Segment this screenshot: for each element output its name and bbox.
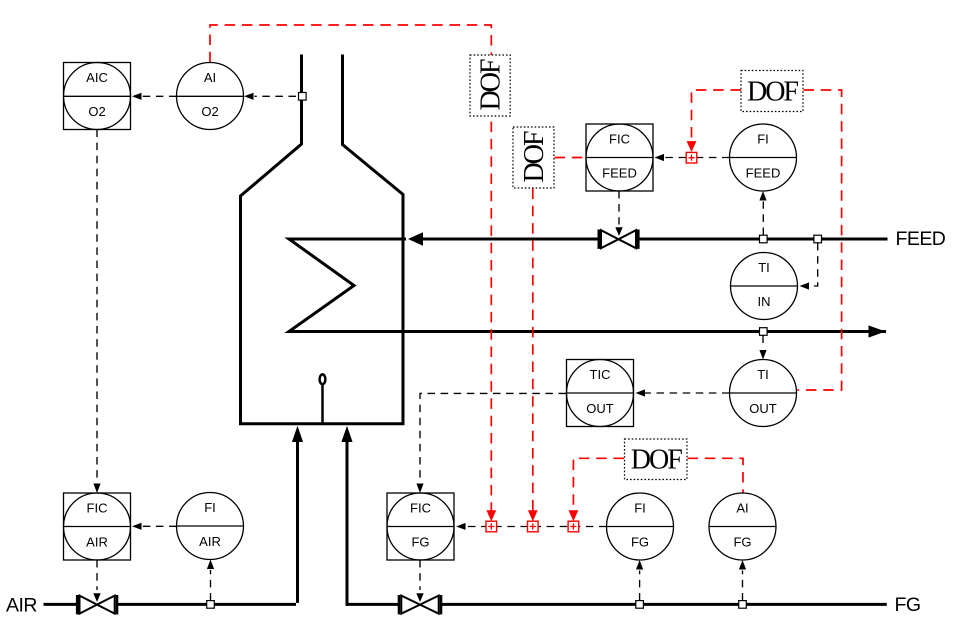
junction node on chimney [299,93,307,101]
svg-text:AI: AI [736,500,748,515]
instrument FIC-AIR [64,493,131,560]
svg-text:OUT: OUT [749,401,777,416]
svg-text:FG: FG [631,535,649,550]
instrument FIC-FG [387,493,454,560]
AIR process line [44,603,297,606]
instrument AI-O2 [177,63,244,130]
svg-text:AI: AI [204,70,216,85]
instrument TI-IN [731,253,798,320]
furnace F1 left wall and chimney left [241,55,302,424]
junction node on outlet line [760,328,768,336]
junction node on FG line 2 [739,601,747,609]
red DOF wire from DOF2 box to plus junction P2 [532,189,534,511]
signal wire FG junction up to FI-FG [639,571,641,601]
AIR riser arrow into furnace [292,426,303,442]
svg-text:FEED: FEED [746,166,781,181]
heating coil (FEED pass) [289,239,886,332]
signal wire FG junction2 up to AI-FG [742,571,744,601]
signal wire chimney junction to AI-O2 [255,95,297,97]
signal wire FIC-AIR to AIR valve [96,560,98,590]
svg-text:DOF: DOF [631,445,682,476]
svg-text:FG: FG [895,594,921,616]
red DOF wire from DOF2 box to FIC-FEED [555,157,586,159]
svg-text:FIC: FIC [410,500,431,515]
svg-text:AIR: AIR [199,534,221,549]
svg-text:DOF: DOF [519,131,550,182]
svg-text:FIC: FIC [609,131,630,146]
signal wire AIR junction up to FI-AIR [210,570,212,601]
red DOF wire from DOF4 box to AI-FG [688,458,744,493]
svg-text:O2: O2 [201,104,218,119]
svg-text:DOF: DOF [747,76,798,107]
signal wire AI-O2 to AIC-O2 [141,95,176,97]
signal wire FI-AIR to FIC-AIR [141,525,177,527]
svg-text:FEED: FEED [896,228,946,250]
instrument AI-FG [709,493,776,560]
red DOF wire from DOF3 box to plus junction P4 [692,90,742,141]
furnace F1 right wall and chimney right [343,55,404,424]
valve V2 AIR [77,595,117,614]
furnace F1 bottom wall [239,422,405,425]
FEED arrow into furnace [408,232,423,245]
svg-text:O2: O2 [88,104,105,119]
signal wire FEED junction2 down to TI-IN [809,243,818,286]
svg-text:AIR: AIR [86,535,108,550]
signal wire outlet junction down to TI-OUT [762,336,764,349]
instrument AIC-O2 [64,63,131,130]
DOF box 4 [625,439,688,480]
svg-text:TI: TI [758,260,770,275]
outlet arrow [869,325,886,337]
DOF box 3 [741,71,803,112]
red DOF wire from DOF3 box to TI-OUT [797,90,841,390]
signal wire TI-OUT to TIC-OUT [645,392,730,394]
red DOF wire from AI-O2 to plus junction P1 [210,25,491,511]
svg-text:FI: FI [204,500,216,515]
DOF box 2 [513,127,554,188]
svg-text:TI: TI [757,367,769,382]
valve V3 FG [399,595,441,614]
signal wire FIC-FG to FG valve [419,560,421,590]
svg-text:FG: FG [411,535,429,550]
instrument FI-FEED [730,124,797,191]
signal wire FI-FG through plus junctions to FIC-FG [466,526,607,528]
signal wire AIC-O2 down to FIC-AIR [96,130,98,483]
FEED process line [421,238,888,241]
svg-text:FI: FI [757,131,769,146]
instrument FI-AIR [177,493,244,560]
svg-text:AIR: AIR [6,595,37,617]
red DOF wire from DOF4 box to plus junction P3 [573,458,624,510]
svg-text:OUT: OUT [586,401,614,416]
red summing junction P4 [686,152,697,163]
signal wire FI-FEED to plus junction to FIC-FEED [664,157,730,159]
signal wire FEED junction up to FI-FEED [762,202,764,236]
instrument FI-FG [607,493,674,560]
instrument FIC-FEED [586,124,653,191]
FG riser arrow into furnace [341,426,352,442]
svg-text:FIC: FIC [87,500,108,515]
signal wire TIC-OUT to FIC-FG [420,393,566,482]
svg-text:FI: FI [634,500,646,515]
signal wire FIC-FEED to FEED valve [618,191,620,225]
svg-text:FG: FG [733,535,751,550]
svg-text:IN: IN [758,294,771,309]
red summing junction P3 [568,521,579,532]
valve V1 FEED [599,230,639,249]
instrument TI-OUT [730,360,797,427]
FG process line [346,603,887,606]
junction node on FG line 1 [636,601,644,609]
svg-text:FEED: FEED [602,166,637,181]
junction node on FEED line 2 [814,235,822,243]
pilot burner stem wire [321,384,324,424]
svg-text:AIC: AIC [86,70,108,85]
red summing junction P2 [528,521,539,532]
DOF box 1 [470,55,510,116]
junction node on FEED line 1 [760,235,768,243]
FG riser wire [346,441,349,606]
AIR riser wire [296,441,299,603]
junction node on AIR line [207,601,215,609]
svg-text:DOF: DOF [476,59,507,110]
red summing junction P1 [486,521,497,532]
pilot burner [320,374,326,384]
svg-text:TIC: TIC [590,367,611,382]
instrument TIC-OUT [567,360,634,427]
